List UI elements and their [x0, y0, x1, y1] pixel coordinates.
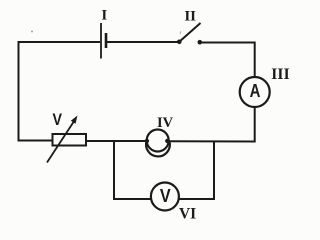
wire: rheostat to left vertical	[18, 140, 53, 142]
svg-text:VI: VI	[179, 205, 196, 222]
lamp IV	[145, 130, 170, 157]
svg-text:II: II	[184, 8, 196, 24]
battery I	[101, 23, 106, 59]
switch II	[177, 23, 202, 45]
wire: voltmeter branch, right side up to main wire	[179, 141, 214, 200]
svg-text:V: V	[160, 186, 171, 206]
speck artifact above switch pivot	[179, 31, 182, 34]
wire: ammeter down to bottom right corner of main loop	[169, 107, 255, 142]
wire: top left horizontal to battery	[18, 41, 101, 43]
svg-text:V: V	[53, 110, 63, 129]
svg-text:I: I	[101, 8, 107, 24]
voltmeter V (VI)	[151, 183, 179, 211]
svg-text:IV: IV	[157, 115, 174, 131]
wire: left vertical (battery to rheostat side)	[18, 42, 20, 141]
wire: battery to switch	[107, 41, 179, 43]
ammeter A (III)	[240, 77, 270, 107]
rheostat V	[47, 116, 86, 163]
svg-text:A: A	[250, 81, 261, 101]
wire: lamp to rheostat	[86, 140, 147, 142]
wire: switch to top right corner and down to ammeter	[200, 43, 255, 78]
svg-text:III: III	[271, 66, 290, 83]
speck artifact near top left	[31, 31, 33, 33]
wire: voltmeter branch, left drop	[114, 141, 151, 199]
